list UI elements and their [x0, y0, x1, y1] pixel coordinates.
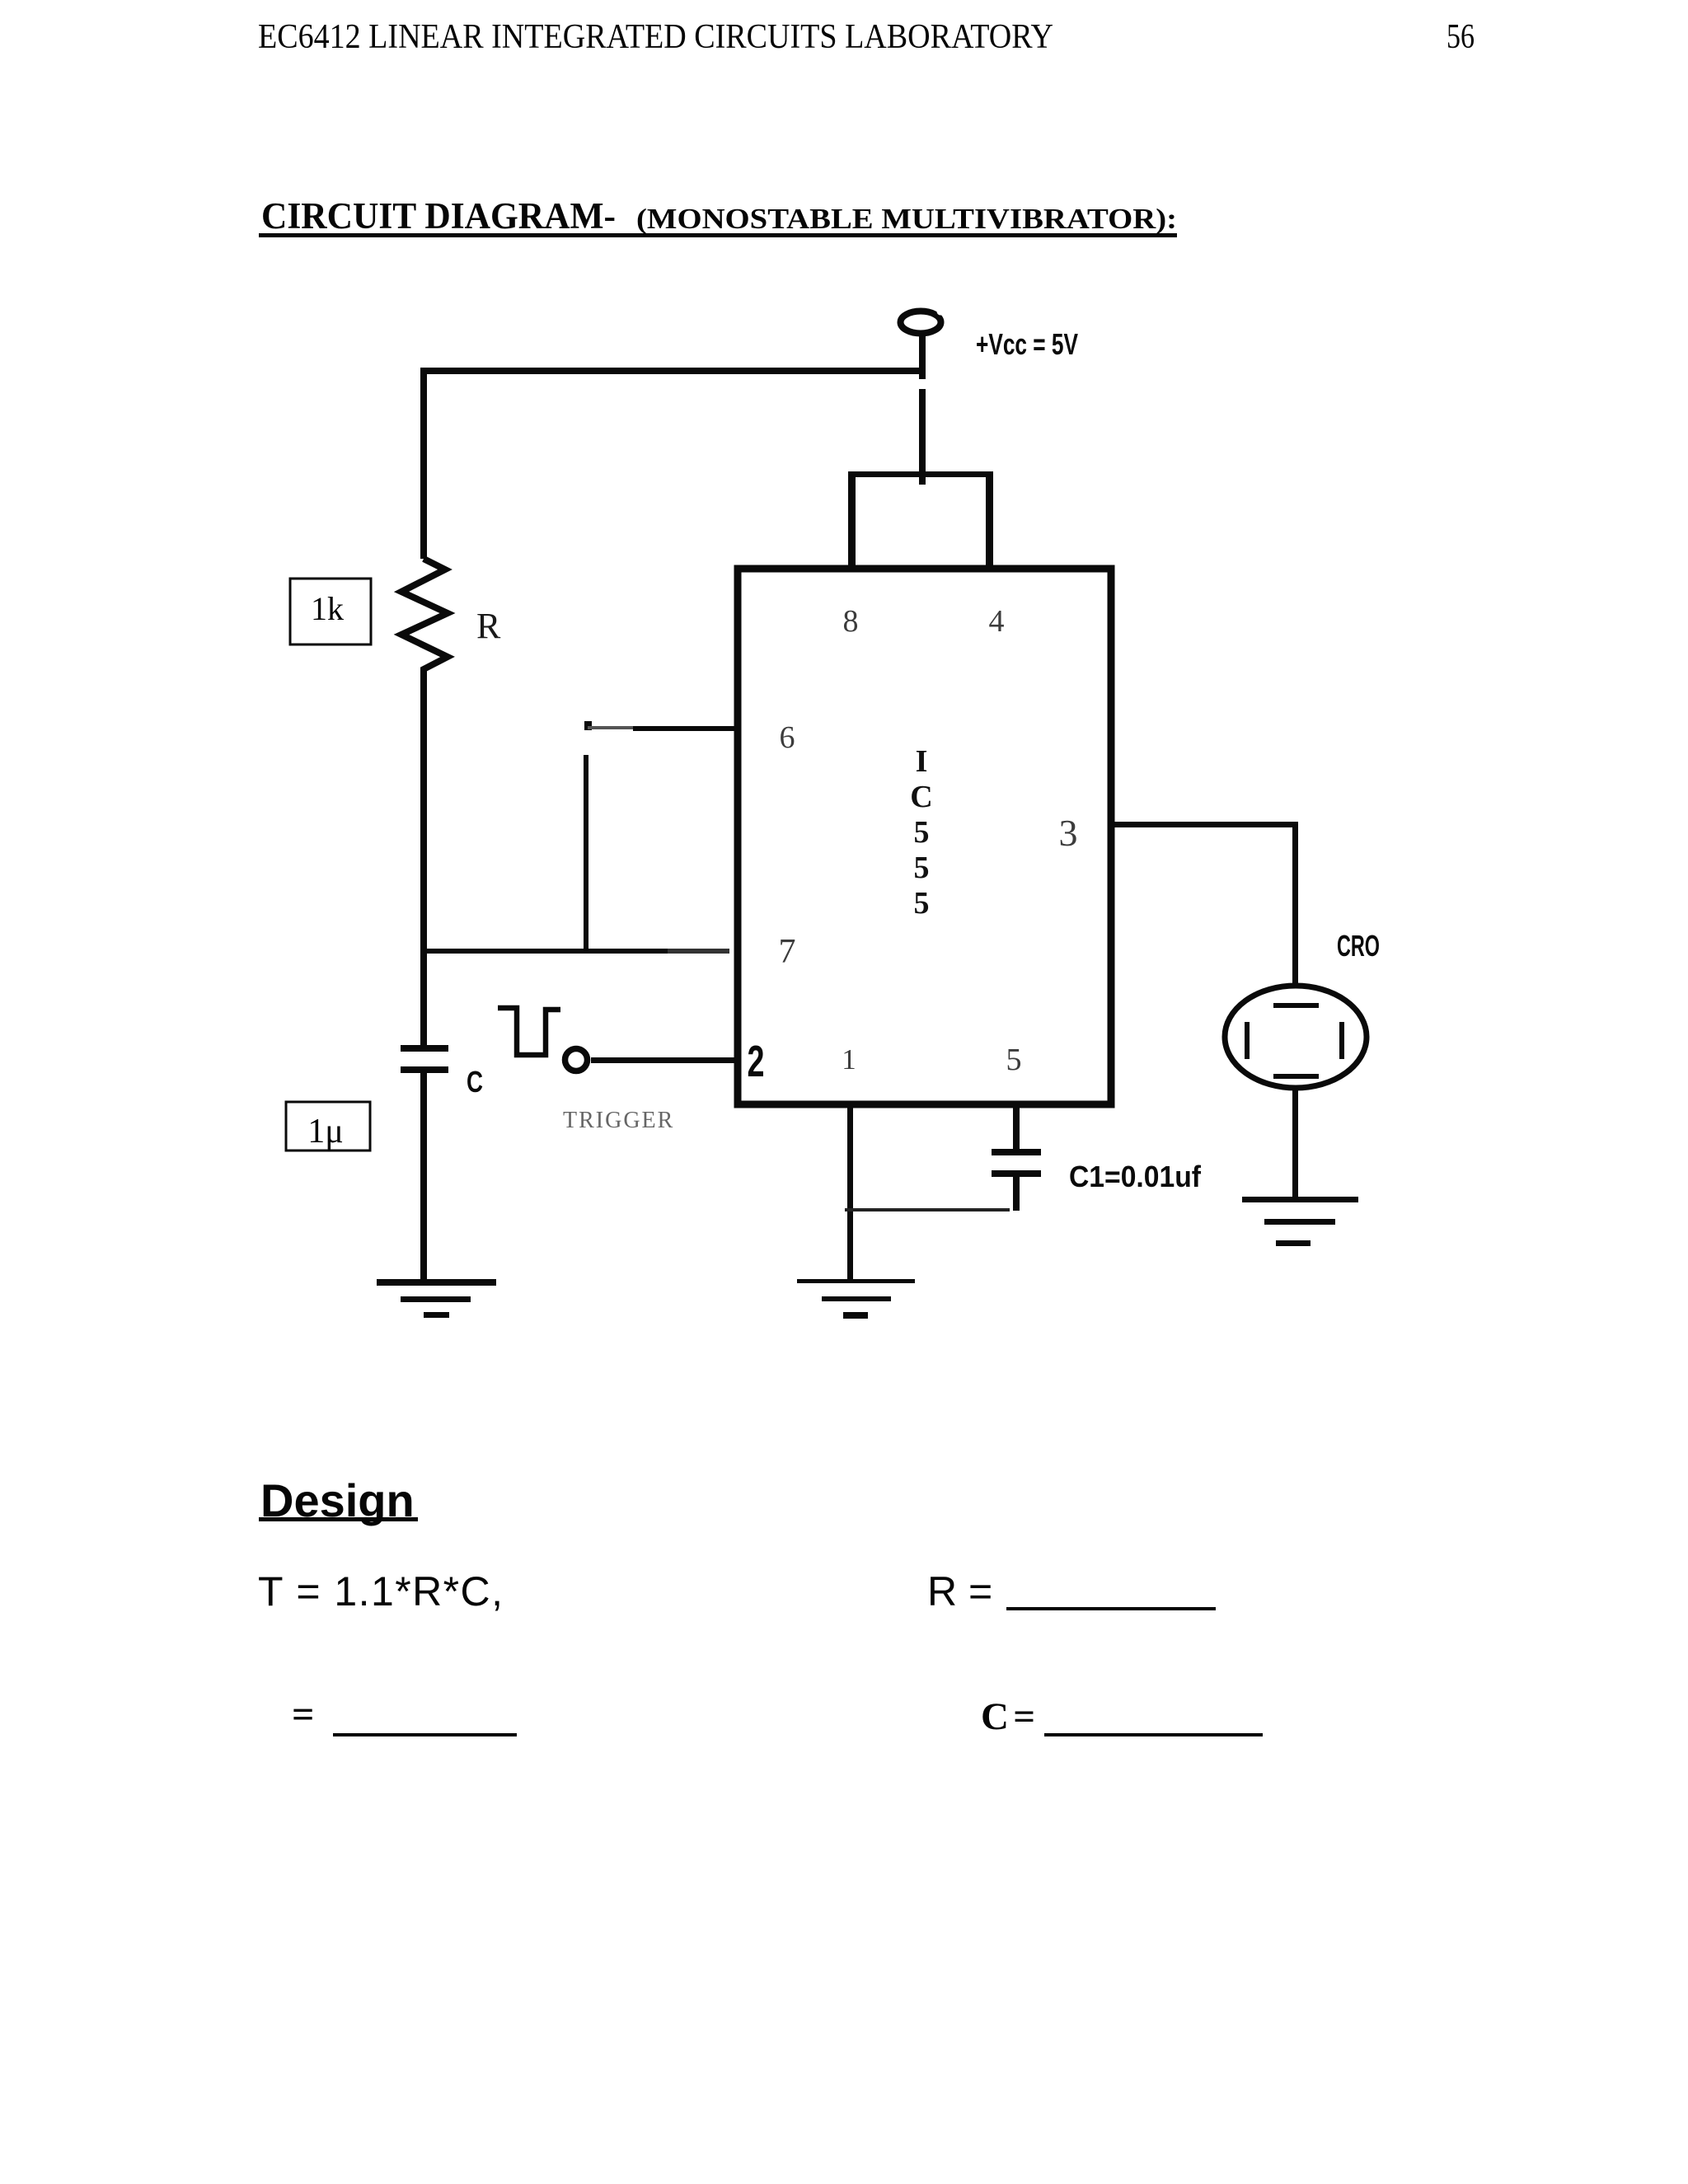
pin label 4 — [989, 604, 1005, 639]
CRO oscilloscope symbol — [1225, 986, 1367, 1088]
svg-text:4: 4 — [989, 604, 1005, 639]
pin label 1 — [842, 1043, 856, 1076]
svg-text:3: 3 — [1059, 812, 1078, 854]
ground (below pin 1) — [797, 1279, 915, 1319]
svg-text:T = 1.1*R*C,: T = 1.1*R*C, — [258, 1568, 503, 1615]
svg-text:TRIGGER: TRIGGER — [563, 1108, 674, 1133]
svg-text:CIRCUIT DIAGRAM-: CIRCUIT DIAGRAM- — [261, 195, 616, 237]
pin label 5 — [1006, 1043, 1022, 1077]
value box 1u — [286, 1102, 370, 1151]
svg-text:1: 1 — [842, 1043, 856, 1076]
svg-text:I: I — [916, 744, 928, 779]
svg-text:R =: R = — [927, 1568, 992, 1615]
design formula row 1 — [258, 1568, 1216, 1615]
svg-text:R: R — [476, 606, 501, 646]
svg-text:=: = — [292, 1693, 314, 1736]
ground (below C) — [377, 1279, 496, 1318]
svg-text:C: C — [910, 780, 932, 814]
IC U1 555 box — [738, 569, 1111, 1104]
wire: pin 5 to capacitor C1 — [1013, 1104, 1020, 1149]
ground (below CRO) — [1242, 1197, 1358, 1246]
label C (capacitor) — [467, 1065, 483, 1099]
pin label 3 — [1059, 812, 1078, 854]
svg-text:C: C — [467, 1065, 483, 1099]
Vcc terminal — [901, 308, 945, 485]
pin label 6 — [780, 720, 795, 755]
resistor R — [401, 559, 448, 674]
Design heading — [259, 1474, 418, 1526]
Vcc supply bus to pins 8 and 4 — [848, 471, 993, 569]
wire: vertical branch from pin7 node up toward pin 6 — [584, 755, 588, 954]
wire: CRO to ground — [1292, 1088, 1298, 1199]
wire: resistor bottom to capacitor C top — [420, 674, 427, 1045]
svg-text:5: 5 — [914, 886, 930, 921]
svg-text:2: 2 — [748, 1037, 765, 1086]
value box 1k — [290, 579, 371, 644]
label IC 555 (vertical) — [910, 744, 932, 921]
svg-text:(MONOSTABLE MULTIVIBRATOR):: (MONOSTABLE MULTIVIBRATOR): — [636, 203, 1177, 235]
design formula row 2 — [292, 1693, 1263, 1738]
label R — [476, 606, 501, 646]
label +Vcc = 5V — [976, 327, 1078, 361]
pin label 2 — [748, 1037, 765, 1086]
svg-text:1k: 1k — [311, 590, 344, 627]
svg-text:5: 5 — [914, 851, 930, 885]
svg-text:7: 7 — [779, 933, 796, 971]
capacitor C1 plates — [992, 1149, 1041, 1211]
wire: trigger to pin 2 — [591, 1057, 734, 1063]
trigger pulse symbol — [498, 1008, 560, 1055]
label C1=0.01uf — [1069, 1160, 1202, 1193]
svg-text:8: 8 — [843, 604, 859, 639]
svg-text:6: 6 — [780, 720, 795, 755]
label CRO — [1337, 929, 1380, 963]
svg-text:CRO: CRO — [1337, 929, 1380, 963]
section title — [259, 195, 1177, 237]
wire: Vcc node to resistor top (top horizontal) — [420, 368, 921, 374]
wire: pin 3 to CRO — [1111, 822, 1298, 987]
pin label 7 — [779, 933, 796, 971]
svg-text:56: 56 — [1447, 18, 1475, 56]
svg-text:1μ: 1μ — [307, 1113, 344, 1151]
wire: node to pin 7 (horizontal) — [420, 949, 729, 954]
wire: capacitor C to ground — [420, 1073, 427, 1282]
wire: bottom connector pin1 to C1 — [845, 1208, 1010, 1212]
svg-text:5: 5 — [914, 815, 930, 850]
svg-text:C =: C = — [981, 1695, 1035, 1738]
capacitor C plates — [401, 1045, 448, 1073]
svg-text:5: 5 — [1006, 1043, 1022, 1077]
wire: pin 1 to ground — [847, 1104, 853, 1282]
wire: left vertical, top corner to resistor — [420, 368, 427, 559]
svg-text:EC6412 LINEAR INTEGRATED CIRCU: EC6412 LINEAR INTEGRATED CIRCUITS LABORA… — [258, 18, 1053, 56]
pin label 8 — [843, 604, 859, 639]
label TRIGGER — [563, 1108, 674, 1133]
page header text — [258, 18, 1475, 56]
trigger terminal circle — [565, 1049, 588, 1071]
svg-text:C1=0.01uf: C1=0.01uf — [1069, 1160, 1202, 1193]
wire: pin 6 horizontal — [584, 721, 734, 731]
svg-text:+Vcc = 5V: +Vcc = 5V — [976, 327, 1078, 361]
